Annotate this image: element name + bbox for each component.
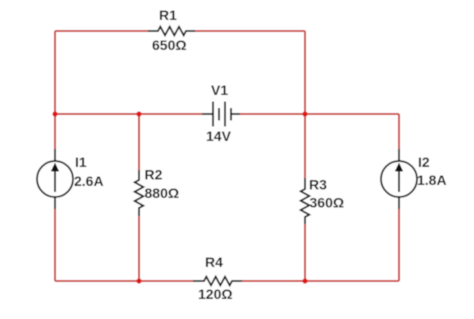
wire far right vertical lower <box>398 209 400 281</box>
wire R2 branch upper <box>138 114 140 170</box>
resistor R1 <box>148 27 195 36</box>
wire bottom horizontal left of R4 <box>55 280 193 282</box>
node junction at R2 bottom <box>136 278 141 283</box>
node junction at R2 top <box>136 111 141 116</box>
wire middle horizontal right of V1 <box>240 113 399 115</box>
svg-text:880Ω: 880Ω <box>145 185 180 201</box>
svg-text:R2: R2 <box>145 167 163 183</box>
svg-text:R4: R4 <box>205 254 223 270</box>
svg-text:650Ω: 650Ω <box>152 37 187 53</box>
svg-text:I2: I2 <box>418 154 430 170</box>
wire far right vertical upper <box>398 114 400 149</box>
svg-text:1.8A: 1.8A <box>417 172 447 188</box>
battery V1 <box>202 102 240 127</box>
node junction at R3 top <box>302 111 307 116</box>
svg-text:V1: V1 <box>211 82 228 98</box>
node junction at R3 bottom <box>302 278 307 283</box>
svg-text:R1: R1 <box>159 7 177 23</box>
resistor R3 <box>301 178 310 224</box>
current source I1 <box>37 149 73 209</box>
svg-text:14V: 14V <box>206 128 232 144</box>
svg-text:I1: I1 <box>75 154 87 170</box>
wire top horizontal right of R1 <box>195 30 305 32</box>
current source I2 <box>381 149 417 209</box>
wire right vertical x305 lower <box>304 224 306 281</box>
wire left vertical upper <box>54 31 56 149</box>
wire left vertical lower <box>54 209 56 281</box>
svg-text:2.6A: 2.6A <box>74 173 104 189</box>
wire middle horizontal left of V1 <box>55 113 202 115</box>
svg-text:360Ω: 360Ω <box>310 195 345 211</box>
resistor R2 <box>135 170 144 216</box>
resistor R4 <box>193 277 242 286</box>
wire bottom horizontal right of R4 <box>242 280 399 282</box>
wire R2 branch lower <box>138 216 140 281</box>
svg-text:R3: R3 <box>309 177 327 193</box>
wire right vertical x305 upper <box>304 31 306 178</box>
node junction left middle <box>52 111 57 116</box>
wire top horizontal left of R1 <box>55 30 148 32</box>
svg-text:120Ω: 120Ω <box>198 286 233 302</box>
